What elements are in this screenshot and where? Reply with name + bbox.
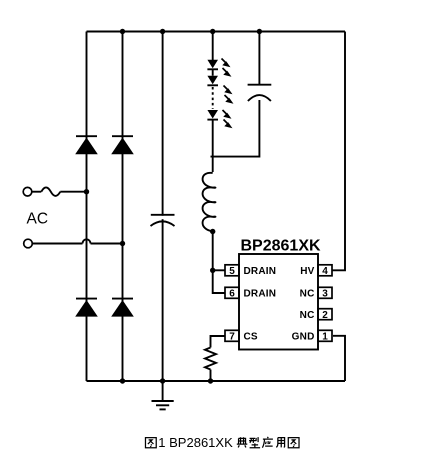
wire pin5 stub: [213, 269, 225, 271]
pin 7 box: [225, 330, 239, 342]
node bottom rail at diode branch: [120, 378, 125, 383]
svg-text:DRAIN: DRAIN: [244, 266, 277, 277]
node bottom rail at ground: [160, 378, 165, 383]
node AC bottom junction: [120, 241, 125, 246]
capacitor C2 (output electrolytic): [248, 85, 272, 101]
svg-text:NC: NC: [300, 310, 315, 321]
diode D3 (bridge lower-left): [75, 299, 98, 317]
pin 3 box: [318, 287, 332, 299]
svg-text:GND: GND: [292, 332, 315, 343]
IC U1 BP2861XK body: [239, 254, 318, 350]
wire bottom rail: [87, 380, 346, 382]
wire LED1-LED2: [212, 69, 214, 75]
node top rail at C2: [257, 29, 262, 34]
svg-text:DRAIN: DRAIN: [244, 289, 277, 300]
svg-text:7: 7: [229, 332, 235, 343]
wire CS to resistor: [211, 336, 226, 348]
node top rail at C1: [160, 29, 165, 34]
wire HV branch (right vertical): [332, 32, 345, 271]
svg-text:6: 6: [229, 289, 235, 300]
wire GND branch (right vertical down): [333, 336, 345, 381]
wire resistor to bottom rail: [210, 370, 212, 382]
wire second bridge branch (x=122.5): [122, 32, 124, 382]
svg-text:2: 2: [322, 310, 328, 321]
capacitor C1 (input electrolytic): [151, 215, 175, 226]
LED LED1: [207, 59, 231, 77]
svg-text:1 BP2861XK: 1 BP2861XK: [158, 435, 233, 450]
caption 图 1 BP2861XK 典型应用图: [145, 435, 299, 450]
wire C2 bottom link: [211, 100, 260, 157]
wire C2 top: [258, 32, 260, 85]
node inductor bottom: [210, 229, 215, 234]
svg-text:NC: NC: [300, 289, 315, 300]
svg-text:1: 1: [322, 332, 328, 343]
svg-text:CS: CS: [244, 332, 258, 343]
wire LED3 to junction: [212, 120, 214, 172]
pin 5 box: [225, 265, 239, 277]
node top rail at LED branch: [210, 29, 215, 34]
node AC top junction: [84, 189, 89, 194]
svg-text:5: 5: [229, 266, 235, 277]
svg-text:HV: HV: [300, 266, 314, 277]
pin 6 box: [225, 287, 239, 299]
ground: [152, 381, 174, 409]
pin 2 box: [318, 309, 332, 321]
pin 4 box: [318, 265, 332, 277]
wire input capacitor branch (x=162.6): [162, 32, 164, 382]
diode D1 (bridge upper-left): [75, 136, 98, 154]
inductor L1: [203, 173, 216, 232]
diode D4 (bridge lower-right): [111, 299, 134, 317]
resistor R1: [205, 348, 216, 370]
wire top rail: [87, 31, 346, 33]
wire dotted (LED string continuation): [212, 87, 214, 109]
AC source terminal top: [23, 187, 86, 196]
wire left bridge branch (x=86.5): [86, 32, 88, 382]
wire inductor bottom to pin5/pin6: [213, 231, 225, 293]
LED LED2: [207, 76, 233, 104]
LED LED3: [207, 110, 232, 128]
svg-text:3: 3: [322, 289, 328, 300]
node bottom rail at resistor: [208, 378, 213, 383]
node top rail at diode branch: [120, 29, 125, 34]
svg-text:4: 4: [322, 266, 328, 277]
svg-text:BP2861XK: BP2861XK: [241, 238, 321, 255]
svg-text:AC: AC: [27, 211, 49, 228]
diode D2 (bridge upper-right): [111, 136, 134, 154]
wire LED branch top (x=212.7): [212, 32, 214, 61]
AC source terminal bottom (with hop over x=86.5): [24, 239, 123, 248]
pin 1 box: [318, 330, 332, 342]
node pin5 branch: [210, 268, 215, 273]
